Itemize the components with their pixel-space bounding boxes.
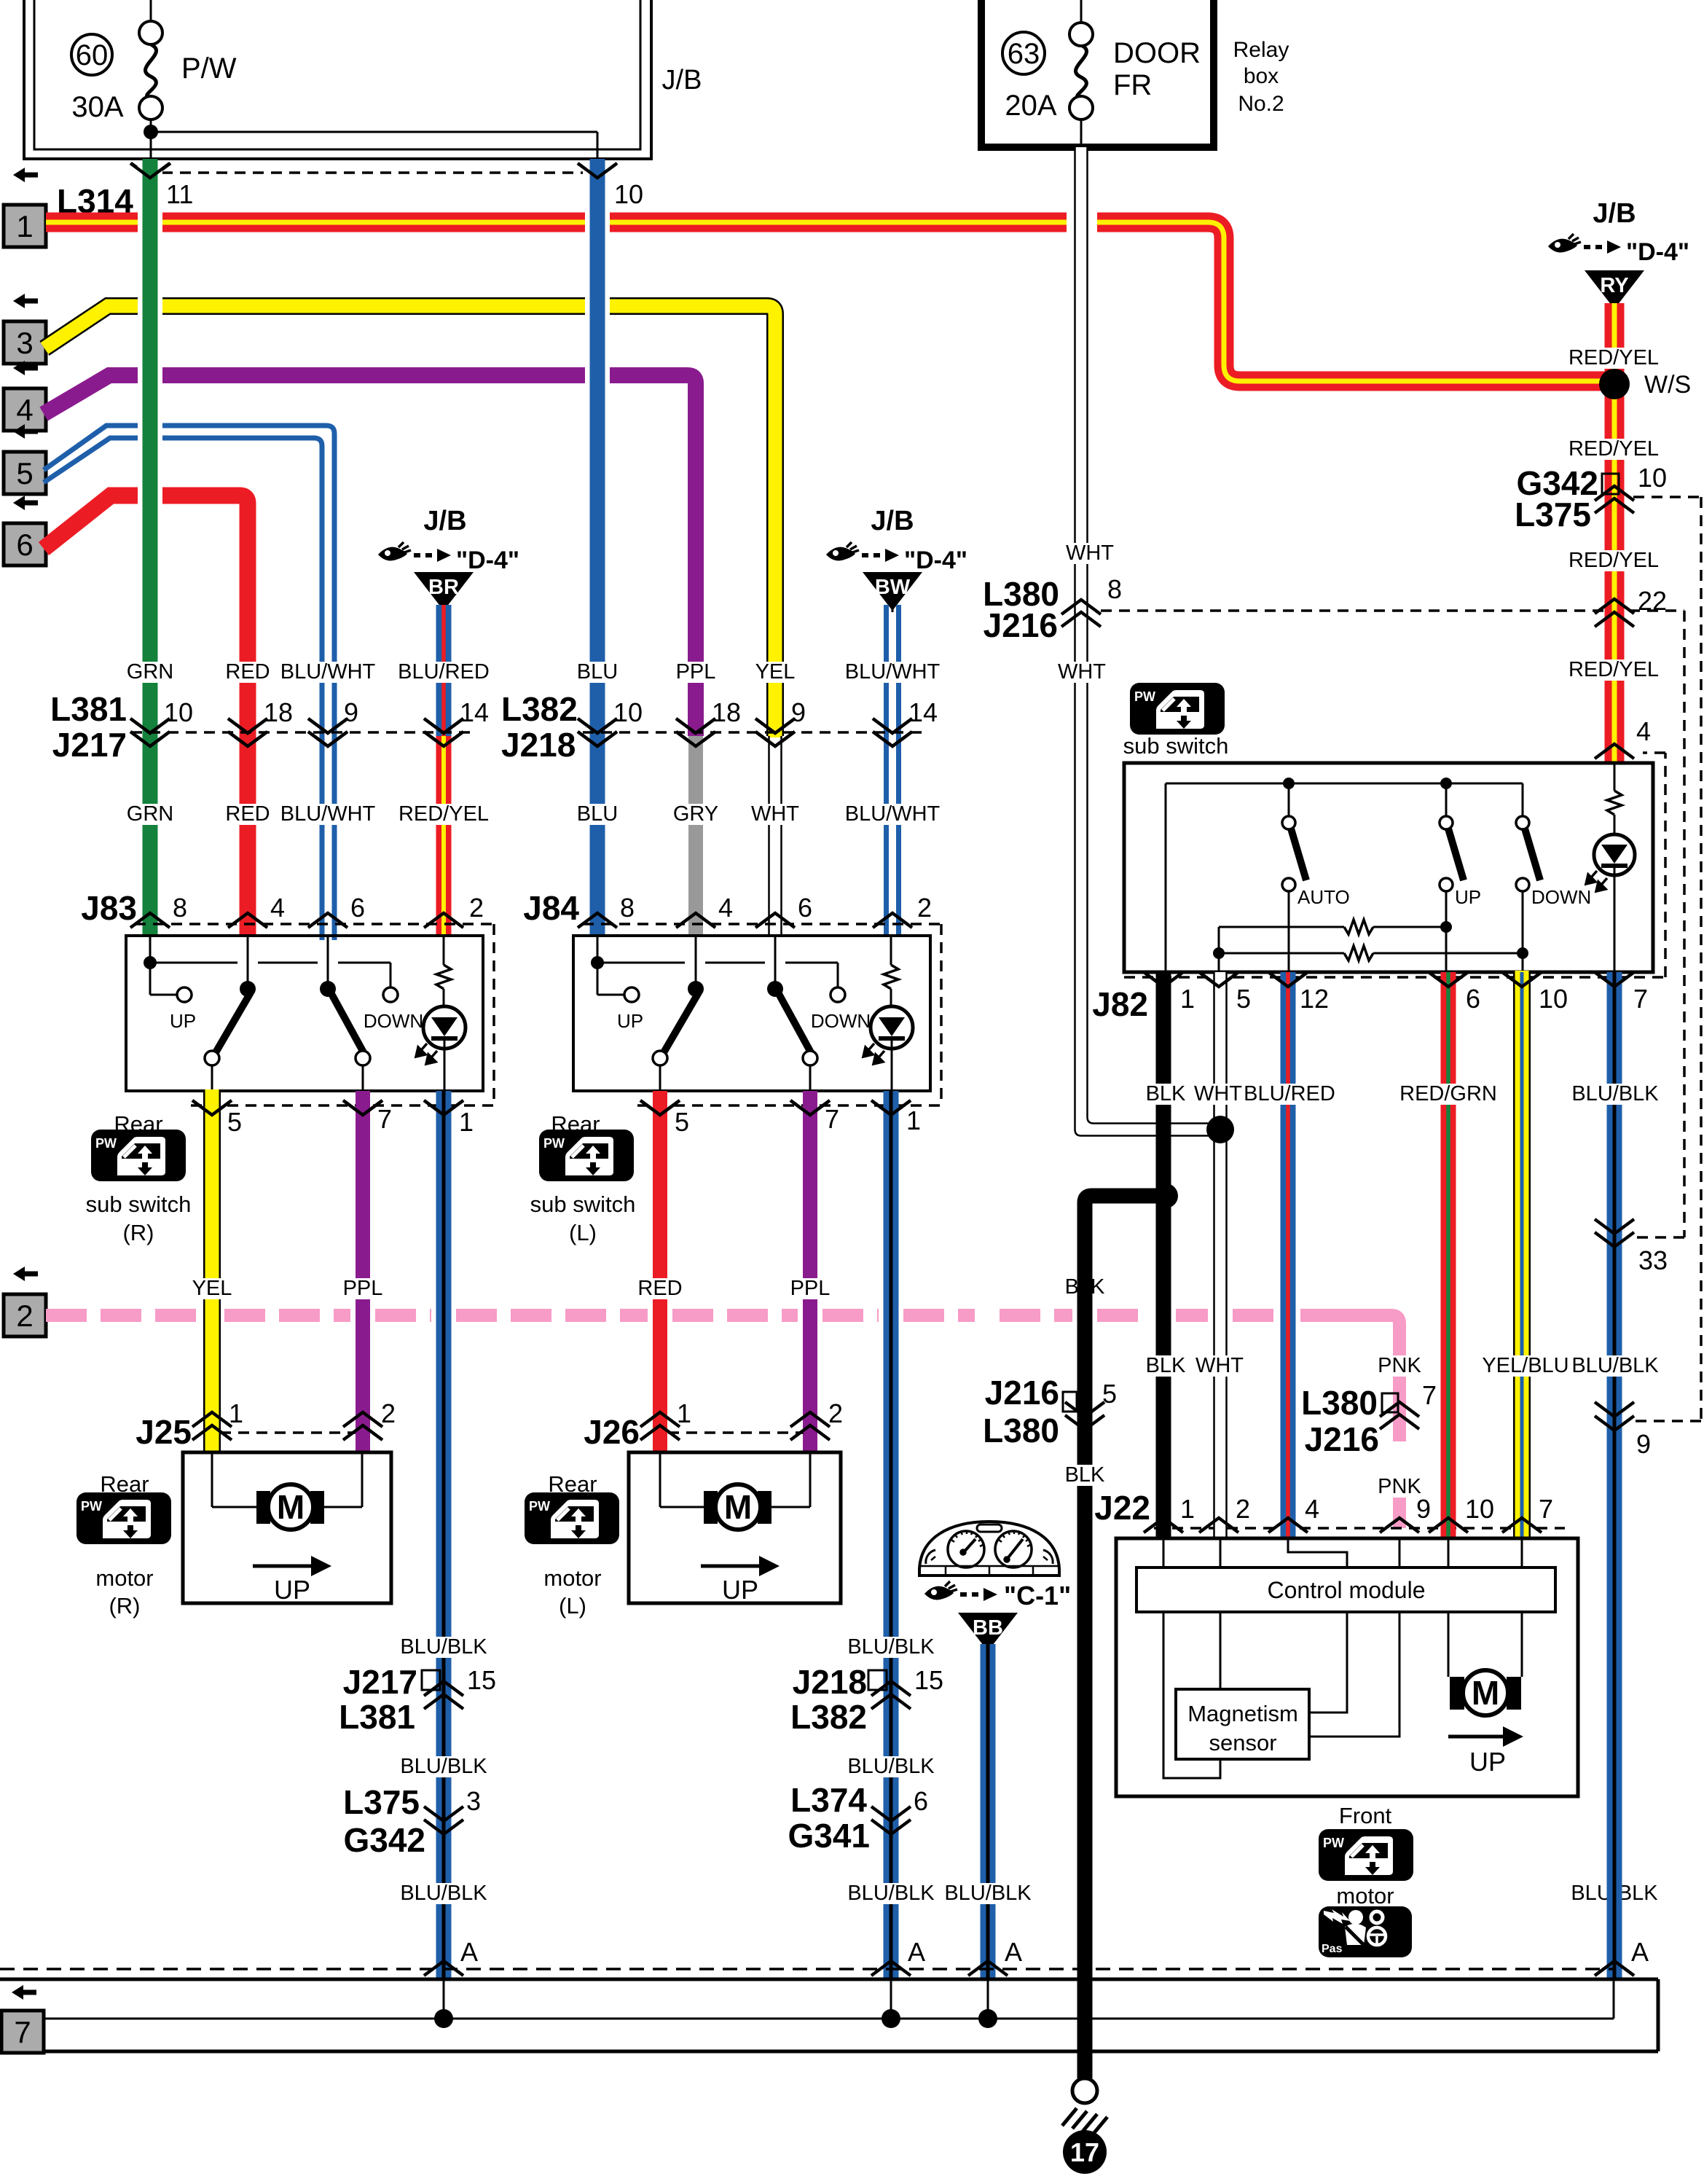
J84 switch blade 1 (from pin 4) (653, 936, 704, 1091)
svg-text:motor: motor (95, 1565, 153, 1591)
svg-text:PNK: PNK (1378, 1354, 1421, 1377)
connector L375/G342 (pin 3) on left BLU/BLK (343, 1783, 481, 1859)
J83 internal common feed from pin 8 (144, 936, 390, 995)
svg-text:DOWN: DOWN (364, 1010, 423, 1032)
svg-text:Magnetism: Magnetism (1187, 1701, 1298, 1726)
svg-text:2: 2 (828, 1398, 843, 1428)
wire label RED/YEL (above 22) (1573, 550, 1654, 571)
rear sub switch (L) icon and label (530, 1111, 636, 1245)
node J83 pin 6 (308, 893, 365, 928)
ground symbol G17 (1062, 2078, 1107, 2174)
svg-text:L382: L382 (790, 1698, 867, 1736)
svg-text:12: 12 (1300, 984, 1329, 1014)
node pin 22 chevrons on RED/YEL (1595, 586, 1667, 627)
node J82 pin 5 (1199, 972, 1251, 1014)
svg-text:7: 7 (377, 1104, 392, 1134)
svg-text:6: 6 (798, 893, 812, 923)
J83 illumination resistor (436, 936, 451, 989)
svg-text:RED/GRN: RED/GRN (1399, 1082, 1497, 1105)
svg-text:L375: L375 (343, 1783, 420, 1821)
svg-text:sub switch: sub switch (530, 1191, 636, 1217)
node L314 pin 10 (BLU) (578, 163, 643, 209)
node J26 pin 1 (640, 1398, 691, 1440)
instrument cluster icon (C-1) (919, 1522, 1059, 1576)
svg-text:J/B: J/B (871, 506, 914, 536)
svg-text:UP: UP (274, 1575, 310, 1605)
svg-text:9: 9 (1416, 1494, 1431, 1524)
wire PPL J83 pin 7 to J25 pin 2 (356, 1091, 370, 1452)
svg-text:BLU/RED: BLU/RED (398, 660, 490, 684)
node J82 pin 1 (1144, 972, 1195, 1014)
front motor icon and label (1319, 1803, 1413, 1909)
svg-text:DOWN: DOWN (811, 1010, 871, 1032)
svg-text:UP: UP (617, 1010, 643, 1032)
node pin 9 chevrons on right BLU/BLK (1595, 1402, 1651, 1459)
svg-text:BLU/BLK: BLU/BLK (400, 1882, 487, 1905)
svg-text:BLK: BLK (1146, 1082, 1186, 1105)
svg-text:BLU/WHT: BLU/WHT (280, 660, 376, 684)
wire label BLU/BLK row 2 (400, 1755, 935, 1778)
wire label BLU/BLK row 3 (400, 1882, 1658, 1905)
svg-text:RY: RY (1600, 274, 1628, 297)
svg-text:UP: UP (170, 1010, 196, 1032)
svg-text:RED: RED (225, 802, 270, 826)
connector terminal 1 (4, 205, 46, 247)
junction nodes on ground bus (434, 2009, 997, 2028)
svg-text:14: 14 (908, 697, 938, 727)
svg-text:BLU/BLK: BLU/BLK (847, 1882, 935, 1905)
svg-text:10: 10 (614, 179, 643, 209)
svg-text:J216: J216 (985, 1374, 1059, 1412)
svg-text:5: 5 (675, 1107, 689, 1137)
connector J216/L380 pin 5 on BLK ground wire (983, 1374, 1117, 1449)
node J83 pin 2 (424, 893, 484, 928)
svg-text:BLU/BLK: BLU/BLK (847, 1635, 935, 1659)
svg-text:M: M (277, 1488, 305, 1526)
svg-text:RED/YEL: RED/YEL (1568, 346, 1659, 369)
svg-text:18: 18 (264, 697, 293, 727)
front power window motor unit box (1116, 1538, 1578, 1796)
svg-text:5: 5 (227, 1107, 242, 1137)
J84 switch blade 2 (from pin 6) (767, 936, 817, 1091)
node L380/J216 pin 8 chevrons on WHT (1061, 600, 1101, 627)
svg-text:22: 22 (1638, 586, 1667, 616)
svg-text:BLU/BLK: BLU/BLK (400, 1755, 487, 1778)
svg-text:YEL/BLU: YEL/BLU (1482, 1354, 1568, 1377)
J84 DOWN contact (811, 987, 871, 1032)
motor M (front) (1450, 1670, 1521, 1715)
node J82 pin 7 (1595, 972, 1648, 1014)
svg-text:G341: G341 (788, 1817, 870, 1855)
connector J82 dashed boundary (1092, 753, 1665, 1023)
connector terminal 2 (4, 1267, 46, 1336)
svg-text:5: 5 (16, 456, 33, 490)
main switch DOWN switch (1516, 783, 1591, 972)
svg-text:A: A (1631, 1937, 1649, 1967)
svg-text:No.2: No.2 (1238, 92, 1284, 116)
svg-text:7: 7 (1422, 1380, 1437, 1410)
LED D3 in main switch (1586, 815, 1635, 972)
node J26 pin 2 (790, 1398, 843, 1440)
svg-text:J216: J216 (983, 606, 1058, 644)
node J84 pin 7 (790, 1100, 839, 1134)
main switch UP switch (1440, 783, 1481, 972)
junction node WHT (1206, 1116, 1234, 1143)
svg-text:5: 5 (1102, 1379, 1117, 1409)
svg-text:motor: motor (1336, 1883, 1394, 1909)
wire labels above J217/J218 (127, 660, 941, 684)
node A on middle BLU/BLK (871, 1937, 925, 1976)
wire GRY J218 to J84 pin 4 (688, 736, 703, 937)
connector J84 dashed line and label (523, 889, 941, 1105)
rear sub switch (R) J83 box (126, 936, 483, 1091)
J84 internal common feed from pin 8 (591, 936, 838, 995)
svg-text:UP: UP (1455, 886, 1481, 908)
UP arrow in front motor unit (1448, 1726, 1523, 1777)
svg-text:A: A (1005, 1937, 1022, 1967)
svg-text:2: 2 (381, 1398, 396, 1428)
node J22 pin 2 (1199, 1494, 1250, 1533)
node pin 33 chevrons on right BLU/BLK (1595, 1219, 1668, 1275)
svg-text:(R): (R) (122, 1220, 154, 1245)
svg-text:J216: J216 (1305, 1420, 1379, 1458)
svg-text:L380: L380 (983, 1412, 1059, 1449)
connector J83 dashed line and label (81, 889, 494, 1105)
wire label PNK below L380 (1380, 1476, 1420, 1498)
wire labels row 2 below J82 (1146, 1354, 1660, 1377)
wire WHT from fuse 63 down and right to junction (1075, 147, 1213, 1136)
svg-text:RED: RED (225, 660, 270, 684)
svg-text:11: 11 (166, 179, 193, 209)
wire BLK from J82 pin 1 to J22 pin 1 (1156, 972, 1171, 1538)
svg-text:Relay: Relay (1233, 38, 1289, 62)
svg-text:AUTO: AUTO (1297, 886, 1350, 908)
LED D1 in J83 (416, 989, 466, 1091)
main switch illumination resistor (1607, 763, 1622, 815)
connector L380/J216 pin 7 on PNK (1301, 1380, 1437, 1458)
rear sub switch (L) J84 box (573, 936, 930, 1091)
svg-text:15: 15 (914, 1665, 943, 1695)
svg-text:sensor: sensor (1209, 1730, 1276, 1756)
svg-text:J/B: J/B (423, 506, 466, 536)
svg-text:1: 1 (1180, 1494, 1195, 1524)
svg-text:1: 1 (16, 209, 33, 243)
node J84 pin 2 (873, 893, 932, 928)
wire GRN from fuse 60 to J217 pin 10 (143, 159, 158, 937)
rear sub switch (R) icon and label (86, 1111, 192, 1245)
wire RED J84 pin 5 to J26 pin 1 (653, 1091, 667, 1452)
relay box No.2 (981, 0, 1289, 147)
svg-text:sub switch: sub switch (86, 1191, 192, 1217)
svg-text:7: 7 (1633, 984, 1648, 1014)
svg-text:10: 10 (164, 697, 193, 727)
motor M (rear R) (256, 1484, 324, 1530)
wire label BLU/BLK row above J217/J218 lower connectors (400, 1635, 935, 1659)
svg-text:Front: Front (1339, 1803, 1392, 1828)
node J83 pin 5 (192, 1100, 242, 1137)
svg-text:J218: J218 (793, 1663, 867, 1701)
connector J217/L381 (pin 15) on left BLU/BLK (339, 1663, 496, 1736)
junction block J/B (top left) (24, 0, 651, 159)
svg-text:J25: J25 (136, 1413, 192, 1451)
J84 illumination resistor (884, 936, 898, 989)
svg-text:BLU/BLK: BLU/BLK (1571, 1354, 1659, 1377)
wire RED J217 to J83 pin 4 (240, 736, 256, 937)
wire RED from terminal 6 (44, 496, 248, 937)
svg-text:UP: UP (722, 1575, 758, 1605)
svg-text:(L): (L) (559, 1593, 586, 1619)
wire PNK corner down to J22 pin 9 (1300, 1315, 1399, 1528)
svg-text:M: M (724, 1488, 752, 1526)
wire BLU/BLK from BB down to ground bus (981, 1644, 996, 1979)
wire label RED/YEL (above W/S) (1573, 348, 1654, 369)
svg-text:L375: L375 (1515, 496, 1591, 533)
node J82 pin 12 (1268, 972, 1329, 1014)
svg-text:BLU/WHT: BLU/WHT (280, 802, 376, 826)
svg-text:BLU/BLK: BLU/BLK (944, 1882, 1032, 1905)
connector L374/G341 (pin 6) on middle BLU/BLK (788, 1781, 928, 1855)
eye reference to C-1 (924, 1581, 1071, 1610)
node J82 pin 10 (1502, 972, 1568, 1014)
wire WHT J218 to J84 pin 6 (double thin line) (769, 736, 782, 937)
svg-text:J82: J82 (1092, 985, 1148, 1023)
svg-text:4: 4 (270, 893, 285, 923)
wire YEL J83 pin 5 to J25 pin 1 (203, 1091, 221, 1452)
wire YEL/BLU from J82 pin 10 to J22 pin 7 (1513, 971, 1531, 1538)
node J218 pin 10 (578, 697, 643, 746)
svg-text:20A: 20A (1005, 90, 1056, 122)
svg-text:8: 8 (173, 893, 187, 923)
svg-text:63: 63 (1008, 38, 1040, 70)
connector terminal 3 (4, 294, 46, 364)
wire YEL from terminal 3 (44, 306, 775, 737)
svg-text:10: 10 (1539, 984, 1568, 1014)
wire BLU/BLK from J83 pin 1 down to ground bus (436, 1091, 452, 1979)
svg-text:2: 2 (16, 1299, 33, 1333)
J84 UP contact (617, 987, 643, 1032)
svg-text:BLU: BLU (577, 660, 618, 684)
node J84 pin 8 (578, 893, 635, 928)
connector J25 dashed line and label (136, 1413, 356, 1451)
fuse F63 20A DOOR FR (1002, 0, 1201, 147)
wire WHT from J82 pin 5 to J22 pin 2 (1214, 972, 1227, 1538)
svg-text:10: 10 (613, 697, 643, 727)
svg-text:15: 15 (467, 1665, 496, 1695)
connector J26 dashed line and label (584, 1413, 804, 1451)
triangle BR (J/B D-4 feed) (378, 506, 519, 612)
svg-text:BLU: BLU (577, 802, 618, 826)
svg-text:FR: FR (1113, 69, 1152, 101)
svg-text:J218: J218 (501, 726, 576, 764)
connector L380/J216 pin 8 dashed boundary (door harness) (983, 574, 1684, 1237)
svg-text:L374: L374 (790, 1781, 867, 1819)
white clearance for GRN and BLU verticals (138, 165, 610, 720)
connector terminal 4 (4, 361, 46, 431)
node J217 pin 18 (228, 697, 293, 746)
svg-text:10: 10 (1638, 463, 1667, 493)
wire BLU/BLK from J84 pin 1 down to ground bus (884, 1091, 899, 1979)
wire labels below J217/J218 (127, 802, 941, 826)
svg-text:BR: BR (428, 576, 459, 599)
connector G342/L375 pin 10 dashed boundary (1632, 497, 1701, 1421)
svg-text:BB: BB (973, 1616, 1003, 1640)
wire labels WHT (1058, 541, 1114, 684)
svg-text:8: 8 (620, 893, 635, 923)
svg-text:60: 60 (76, 39, 109, 71)
svg-text:A: A (460, 1937, 478, 1967)
svg-text:"D-4": "D-4" (904, 547, 967, 574)
J83 switch blade 1 (from pin 4) (205, 936, 256, 1091)
svg-text:"D-4": "D-4" (1626, 238, 1689, 266)
svg-text:L381: L381 (50, 690, 127, 728)
svg-text:A: A (908, 1937, 925, 1967)
svg-text:sub switch: sub switch (1123, 733, 1229, 759)
wire BLU/BLK from J82 pin 7 to ground bus (1607, 972, 1622, 1979)
J83 UP contact (170, 987, 196, 1032)
rear motor (L) icon and label (525, 1471, 619, 1619)
svg-text:(R): (R) (109, 1593, 140, 1619)
power window main switch box (driver) (1124, 763, 1653, 972)
node J83 pin 7 (343, 1100, 392, 1134)
magnetism sensor box (1176, 1689, 1309, 1759)
svg-text:2: 2 (917, 893, 932, 923)
node J22 pin 4 (1268, 1494, 1319, 1533)
svg-text:L380: L380 (1301, 1384, 1378, 1422)
svg-text:WHT: WHT (751, 802, 799, 826)
svg-text:BLU/BLK: BLU/BLK (400, 1635, 487, 1659)
svg-text:6: 6 (16, 528, 33, 562)
ground bus bar (0, 1979, 1658, 2051)
svg-text:4: 4 (1305, 1494, 1319, 1524)
svg-text:WHT: WHT (1066, 541, 1114, 565)
wire RED/YEL from RY down to main switch pin 4 (1605, 303, 1625, 763)
svg-text:YEL: YEL (755, 660, 796, 684)
svg-text:J217: J217 (343, 1663, 417, 1701)
wire PPL from terminal 4 (44, 375, 696, 736)
node J83 pin 1 (424, 1100, 474, 1137)
control module pin stubs (1163, 1538, 1522, 1567)
svg-text:RED/YEL: RED/YEL (398, 802, 489, 826)
connector G342/L375 pin 10 on RED/YEL (1515, 463, 1667, 533)
rear motor (L) J26 box (629, 1452, 841, 1603)
svg-text:"C-1": "C-1" (1004, 1581, 1071, 1610)
node J218 pin 14 (873, 697, 938, 746)
svg-text:1: 1 (229, 1398, 243, 1428)
main switch internal feed line (1166, 778, 1523, 972)
svg-text:PPL: PPL (790, 1277, 831, 1300)
node J84 pin 4 (676, 893, 733, 928)
svg-text:(L): (L) (569, 1220, 597, 1245)
LED D2 in J84 (863, 989, 913, 1091)
rear motor (R) icon and label (76, 1471, 171, 1619)
node J22 pin 7 (1502, 1494, 1553, 1533)
svg-text:M: M (1472, 1674, 1499, 1712)
control module internal wiring (1163, 1612, 1522, 1778)
svg-text:7: 7 (825, 1104, 839, 1134)
wire labels below J82 (1146, 1082, 1660, 1105)
node J218 pin 18 (676, 697, 741, 746)
svg-text:1: 1 (677, 1398, 691, 1428)
node J83 pin 8 (130, 893, 187, 928)
wire RED/GRN from J82 pin 6 to J22 pin 10 (1441, 972, 1456, 1538)
connector A dashed line (bottom) (0, 1968, 1614, 1970)
svg-text:7: 7 (1539, 1494, 1553, 1524)
svg-text:4: 4 (718, 893, 733, 923)
node J217 pin 9 (308, 697, 358, 746)
svg-text:L382: L382 (501, 690, 578, 728)
connector J22 dashed line (1094, 1489, 1565, 1528)
wire RED/YEL from terminal 1 (segment right of WHT, corner down, to W/S) (1097, 222, 1614, 381)
svg-text:BLU/RED: BLU/RED (1244, 1082, 1335, 1105)
svg-text:W/S: W/S (1644, 371, 1691, 399)
svg-text:BLU/WHT: BLU/WHT (845, 660, 941, 684)
svg-text:BLU/WHT: BLU/WHT (845, 802, 941, 826)
node J22 pin 9 (1380, 1494, 1431, 1533)
svg-text:BLK: BLK (1065, 1463, 1105, 1487)
svg-text:DOOR: DOOR (1113, 37, 1201, 69)
node J82 pin 6 (1429, 972, 1480, 1014)
svg-text:UP: UP (1469, 1747, 1506, 1777)
triangle BB (to instrument cluster) (958, 1613, 1018, 1651)
svg-text:3: 3 (466, 1786, 481, 1816)
connector terminal 5 (4, 424, 46, 494)
svg-text:J83: J83 (81, 889, 137, 927)
node J84 pin 1 (871, 1100, 921, 1135)
node L314 pin 11 (GRN) (131, 163, 193, 209)
node J22 pin 10 (1429, 1494, 1494, 1533)
svg-text:BLU/BLK: BLU/BLK (1571, 1082, 1659, 1105)
ground bus internal wire (44, 1979, 1614, 2019)
svg-text:9: 9 (1636, 1429, 1651, 1459)
svg-text:BLU/BLK: BLU/BLK (847, 1755, 935, 1778)
fuse F60 output wire and junction (144, 120, 597, 159)
node J217 pin 14 (424, 697, 489, 746)
svg-text:8: 8 (1107, 574, 1122, 604)
svg-text:10: 10 (1465, 1494, 1494, 1524)
svg-text:BLK: BLK (1146, 1354, 1186, 1377)
svg-text:GRN: GRN (127, 802, 173, 826)
motor M (rear L) (704, 1484, 771, 1530)
svg-text:G342: G342 (343, 1821, 425, 1859)
svg-text:RED/YEL: RED/YEL (1568, 549, 1659, 572)
node J217 pin 10 (130, 697, 193, 746)
UP arrow in J26 (701, 1556, 780, 1605)
node A on left BLU/BLK (424, 1937, 478, 1976)
svg-text:J26: J26 (584, 1413, 640, 1451)
node main switch pin 4 chevron (1595, 716, 1651, 759)
svg-text:WHT: WHT (1195, 1354, 1244, 1377)
wire label BLK below J216 (1065, 1465, 1105, 1486)
svg-text:1: 1 (906, 1105, 921, 1135)
node A on BB BLU/BLK (968, 1937, 1022, 1976)
passenger caution icon (1319, 1906, 1412, 1957)
wire label RED/YEL (below 22) (1573, 659, 1654, 681)
svg-text:2: 2 (469, 893, 484, 923)
control module box (1136, 1567, 1555, 1612)
svg-text:P/W: P/W (181, 52, 237, 85)
node J83 pin 4 (228, 893, 285, 928)
svg-text:BW: BW (875, 576, 911, 599)
svg-text:14: 14 (460, 697, 489, 727)
junction node W/S (1599, 369, 1691, 399)
svg-text:33: 33 (1638, 1245, 1668, 1275)
svg-text:box: box (1244, 64, 1279, 88)
node J25 pin 2 (343, 1398, 396, 1440)
svg-text:9: 9 (344, 697, 358, 727)
svg-text:motor: motor (543, 1565, 601, 1591)
triangle BW (J/B D-4 feed) (826, 506, 967, 612)
svg-text:PPL: PPL (676, 660, 716, 684)
